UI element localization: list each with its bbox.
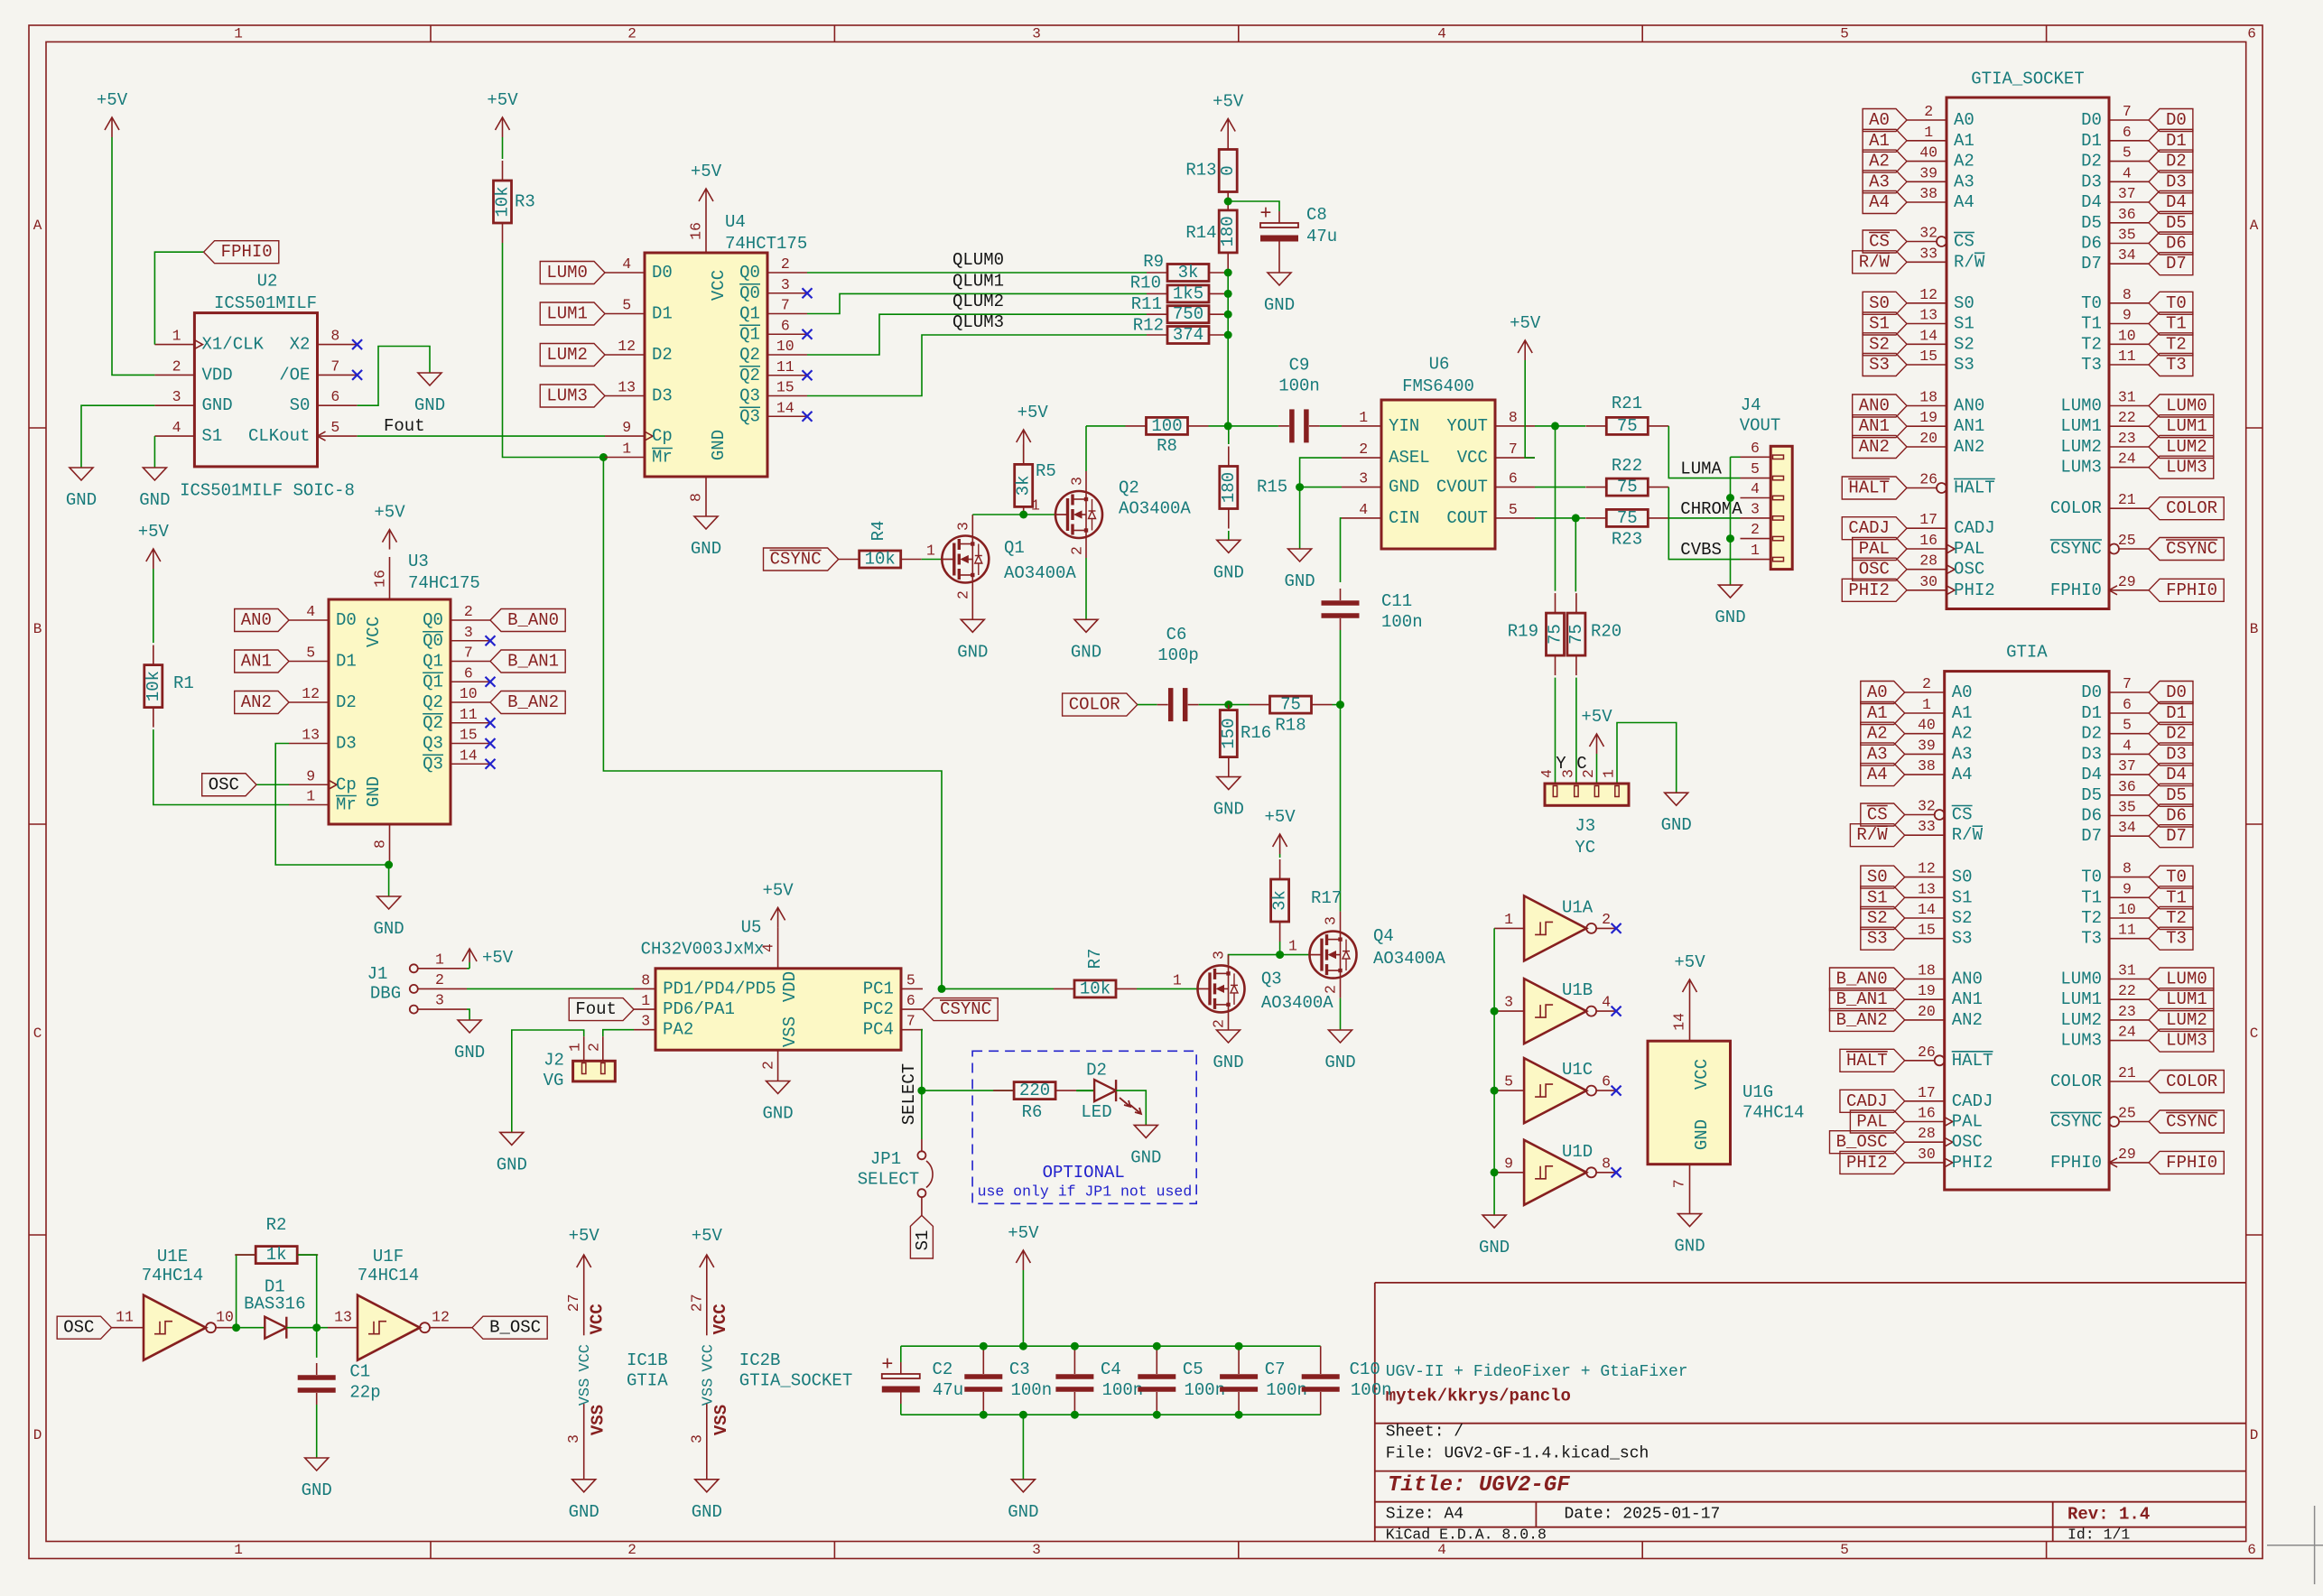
svg-text:750: 750 bbox=[1173, 304, 1203, 324]
svg-text:R19: R19 bbox=[1508, 621, 1538, 641]
junction bbox=[1224, 311, 1232, 319]
GTIA_SOCKET pin 12 S0 bbox=[1907, 302, 1947, 304]
svg-text:IC2B: IC2B bbox=[739, 1350, 781, 1370]
svg-text:3: 3 bbox=[955, 522, 972, 531]
svg-text:PD6/PA1: PD6/PA1 bbox=[663, 999, 735, 1019]
hierarchical label HALT (GTIA_SOCKET pin 26) bbox=[1842, 477, 1907, 499]
svg-text:GND: GND bbox=[1674, 1237, 1705, 1257]
svg-text:YIN: YIN bbox=[1389, 416, 1419, 436]
svg-text:GTIA: GTIA bbox=[627, 1370, 668, 1390]
hierarchical label COLOR (GTIA pin 21) bbox=[2149, 1071, 2224, 1093]
svg-text:A: A bbox=[33, 218, 42, 234]
svg-text:100p: 100p bbox=[1157, 645, 1199, 665]
U4 pin Mr bbox=[605, 457, 645, 459]
svg-text:5: 5 bbox=[1840, 1542, 1849, 1558]
capacitor C5 100n bbox=[1156, 1346, 1157, 1362]
GTIA_SOCKET pin 13 S1 bbox=[1907, 323, 1947, 325]
junction bbox=[1491, 1168, 1499, 1176]
GTIA pin 14 S2 bbox=[1905, 917, 1945, 919]
svg-text:OSC: OSC bbox=[209, 775, 239, 794]
svg-text:J3: J3 bbox=[1575, 816, 1595, 836]
svg-text:VCC: VCC bbox=[711, 1304, 730, 1334]
svg-text:D1: D1 bbox=[2166, 703, 2187, 723]
U6 pin VCC bbox=[1495, 457, 1535, 459]
svg-text:30: 30 bbox=[1919, 573, 1937, 590]
svg-text:T1: T1 bbox=[2081, 887, 2102, 907]
wire bbox=[1228, 531, 1230, 540]
svg-text:74HCT175: 74HCT175 bbox=[725, 234, 807, 254]
U6 pin ASEL bbox=[1342, 457, 1381, 459]
svg-text:VSS: VSS bbox=[780, 1016, 800, 1047]
svg-text:VSS: VSS bbox=[700, 1378, 717, 1406]
hierarchical label D7 (GTIA_SOCKET pin 34) bbox=[2149, 253, 2193, 275]
svg-text:47u: 47u bbox=[1306, 227, 1337, 246]
svg-text:T1: T1 bbox=[2166, 887, 2187, 907]
svg-text:/OE: /OE bbox=[279, 365, 310, 385]
svg-text:T3: T3 bbox=[2166, 355, 2187, 375]
GTIA pin 25 CSYNC bbox=[2109, 1117, 2119, 1127]
wire bbox=[286, 1327, 328, 1329]
svg-text:S0: S0 bbox=[1867, 868, 1888, 887]
svg-text:LUM3: LUM3 bbox=[546, 386, 588, 406]
svg-text:LUM1: LUM1 bbox=[2166, 416, 2207, 436]
GTIA_SOCKET pin 35 D6 bbox=[2109, 243, 2149, 245]
GTIA pin 34 D7 bbox=[2109, 835, 2149, 837]
wire bbox=[1525, 360, 1535, 458]
svg-text:AO3400A: AO3400A bbox=[1119, 499, 1191, 519]
svg-text:0: 0 bbox=[1218, 165, 1238, 175]
wire bbox=[467, 1009, 469, 1020]
hierarchical label LUM1 (GTIA_SOCKET pin 22) bbox=[2149, 415, 2214, 438]
svg-text:33: 33 bbox=[1919, 245, 1937, 262]
svg-text:J4: J4 bbox=[1741, 395, 1761, 415]
svg-text:16: 16 bbox=[372, 570, 389, 588]
GTIA_SOCKET pin 6 D1 bbox=[2109, 140, 2149, 142]
svg-text:2: 2 bbox=[172, 357, 181, 375]
hierarchical label A2 (GTIA_SOCKET pin 40) bbox=[1863, 150, 1907, 172]
svg-text:S1: S1 bbox=[1954, 314, 1975, 334]
junction bbox=[917, 1087, 925, 1095]
diode D2 LED bbox=[1076, 1090, 1094, 1091]
svg-text:4: 4 bbox=[1751, 480, 1760, 497]
svg-text:1: 1 bbox=[1922, 696, 1931, 713]
svg-text:YOUT: YOUT bbox=[1446, 416, 1488, 436]
svg-text:24: 24 bbox=[2118, 450, 2136, 468]
svg-text:SELECT: SELECT bbox=[858, 1170, 919, 1190]
svg-text:7: 7 bbox=[2123, 675, 2132, 692]
svg-text:10: 10 bbox=[2118, 327, 2136, 344]
svg-text:COLOR: COLOR bbox=[2166, 498, 2217, 518]
hierarchical label CS (GTIA_SOCKET pin 32) bbox=[1863, 230, 1907, 253]
svg-text:220: 220 bbox=[1019, 1081, 1050, 1100]
junction bbox=[1491, 1007, 1499, 1016]
svg-text:2: 2 bbox=[435, 971, 444, 988]
svg-text:6: 6 bbox=[2247, 1542, 2256, 1558]
svg-text:GND: GND bbox=[66, 490, 97, 510]
svg-text:AN2: AN2 bbox=[1954, 437, 1984, 457]
svg-text:75: 75 bbox=[1566, 624, 1586, 645]
svg-text:GND: GND bbox=[762, 1104, 793, 1124]
wire bbox=[1022, 1270, 1024, 1346]
ground (J4) bbox=[1719, 585, 1742, 598]
svg-text:8: 8 bbox=[330, 328, 339, 345]
svg-text:U1B: U1B bbox=[1562, 980, 1593, 1000]
svg-text:LUM2: LUM2 bbox=[2060, 1010, 2102, 1030]
svg-text:10: 10 bbox=[776, 338, 794, 355]
hierarchical label D6 (GTIA_SOCKET pin 35) bbox=[2149, 232, 2193, 255]
svg-text:use only if JP1 not used: use only if JP1 not used bbox=[978, 1183, 1193, 1200]
svg-text:B_AN2: B_AN2 bbox=[507, 692, 559, 712]
svg-text:28: 28 bbox=[1919, 552, 1937, 570]
U6 pin CIN bbox=[1342, 517, 1381, 519]
svg-text:Q1: Q1 bbox=[739, 324, 760, 344]
wire bbox=[503, 243, 606, 458]
hierarchical label B_AN2 (GTIA pin 20) bbox=[1830, 1008, 1905, 1031]
U5 pin PC4 bbox=[901, 1029, 923, 1031]
GTIA_SOCKET pin 30 PHI2 bbox=[1907, 589, 1947, 591]
svg-text:CSYNC: CSYNC bbox=[940, 999, 991, 1019]
junction bbox=[1071, 1342, 1079, 1350]
no-connect U4 Q0bar bbox=[803, 288, 813, 298]
svg-text:R11: R11 bbox=[1131, 294, 1162, 314]
svg-text:PAL: PAL bbox=[1859, 539, 1890, 559]
svg-text:+5V: +5V bbox=[374, 503, 405, 523]
svg-text:S1: S1 bbox=[1869, 314, 1890, 334]
svg-text:75: 75 bbox=[1617, 416, 1638, 436]
svg-text:7: 7 bbox=[1671, 1179, 1688, 1188]
hierarchical label R/W (GTIA pin 33) bbox=[1850, 824, 1904, 847]
GTIA pin 9 T1 bbox=[2109, 896, 2149, 898]
junction bbox=[980, 1342, 988, 1350]
U4 pin Q0bar bbox=[767, 292, 807, 294]
svg-text:D5: D5 bbox=[2081, 213, 2102, 233]
svg-text:5: 5 bbox=[1509, 501, 1518, 518]
svg-text:U1E: U1E bbox=[157, 1247, 188, 1267]
svg-text:OSC: OSC bbox=[1859, 560, 1890, 580]
svg-text:QLUM0: QLUM0 bbox=[952, 250, 1004, 270]
svg-text:AN0: AN0 bbox=[1952, 970, 1983, 989]
hierarchical label D6 (GTIA pin 35) bbox=[2149, 804, 2193, 827]
hierarchical label CSYNC (to R4) bbox=[764, 548, 839, 571]
svg-text:GND: GND bbox=[691, 539, 721, 559]
svg-text:D6: D6 bbox=[2081, 234, 2102, 254]
resistor R16 150 bbox=[1228, 705, 1230, 710]
svg-text:Sheet: /: Sheet: / bbox=[1386, 1424, 1463, 1442]
wire bbox=[1023, 450, 1025, 461]
svg-text:S3: S3 bbox=[1952, 929, 1973, 949]
svg-text:PAL: PAL bbox=[1952, 1112, 1983, 1132]
svg-text:CADJ: CADJ bbox=[1846, 1091, 1888, 1111]
svg-text:11: 11 bbox=[2118, 922, 2136, 939]
svg-text:FPHI0: FPHI0 bbox=[221, 242, 273, 262]
svg-text:6: 6 bbox=[464, 664, 473, 682]
svg-text:39: 39 bbox=[1919, 164, 1937, 181]
wire bbox=[1116, 1090, 1146, 1125]
svg-text:CADJ: CADJ bbox=[1954, 518, 1995, 538]
svg-text:B_AN0: B_AN0 bbox=[1836, 970, 1888, 989]
GTIA pin 5 D2 bbox=[2109, 733, 2149, 735]
svg-text:11: 11 bbox=[776, 358, 794, 376]
svg-text:2: 2 bbox=[781, 255, 790, 273]
wire bbox=[112, 137, 154, 375]
svg-text:LUM2: LUM2 bbox=[2166, 1010, 2207, 1030]
svg-text:A4: A4 bbox=[1869, 192, 1890, 212]
svg-text:VG: VG bbox=[544, 1071, 564, 1090]
svg-text:14: 14 bbox=[460, 747, 478, 764]
hierarchical label D3 (GTIA pin 4) bbox=[2149, 743, 2193, 766]
svg-text:QLUM1: QLUM1 bbox=[952, 271, 1004, 291]
ground (R16) bbox=[1217, 777, 1240, 790]
GTIA pin 40 A2 bbox=[1905, 733, 1945, 735]
svg-text:75: 75 bbox=[1617, 478, 1638, 497]
svg-text:GND: GND bbox=[1692, 1119, 1712, 1150]
svg-text:18: 18 bbox=[1918, 962, 1936, 979]
svg-text:11: 11 bbox=[116, 1309, 134, 1326]
wire bbox=[901, 1345, 1321, 1347]
svg-text:mytek/kkrys/panclo: mytek/kkrys/panclo bbox=[1386, 1387, 1571, 1406]
svg-text:22: 22 bbox=[2118, 409, 2136, 426]
svg-text:4: 4 bbox=[172, 419, 181, 436]
J1 pin 2 bbox=[410, 985, 418, 993]
wire bbox=[922, 559, 943, 561]
svg-text:U1D: U1D bbox=[1562, 1142, 1593, 1162]
svg-text:9: 9 bbox=[2123, 880, 2132, 897]
svg-text:HALT: HALT bbox=[1952, 1051, 1993, 1071]
junction bbox=[385, 861, 393, 869]
GTIA pin 17 CADJ bbox=[1905, 1100, 1945, 1102]
svg-text:6: 6 bbox=[1602, 1073, 1611, 1090]
svg-text:23: 23 bbox=[2118, 1003, 2136, 1020]
svg-text:R23: R23 bbox=[1612, 530, 1642, 550]
svg-text:Cp: Cp bbox=[336, 775, 357, 794]
svg-text:5: 5 bbox=[622, 297, 631, 314]
svg-text:3: 3 bbox=[1504, 994, 1513, 1011]
svg-text:B_OSC: B_OSC bbox=[1836, 1132, 1888, 1152]
GTIA_SOCKET pin 7 D0 bbox=[2109, 119, 2149, 121]
GTIA pin 11 T3 bbox=[2109, 938, 2149, 940]
GTIA_SOCKET pin 2 A0 bbox=[1907, 119, 1947, 121]
GTIA_SOCKET pin 28 OSC bbox=[1907, 569, 1947, 571]
hierarchical label T0 (GTIA pin 8) bbox=[2149, 866, 2193, 888]
wire bbox=[1209, 425, 1278, 427]
svg-text:GTIA_SOCKET: GTIA_SOCKET bbox=[1971, 70, 2084, 89]
svg-text:D3: D3 bbox=[2081, 744, 2102, 764]
junction bbox=[1572, 514, 1580, 522]
svg-text:U1F: U1F bbox=[373, 1247, 404, 1267]
junction bbox=[1019, 1342, 1027, 1350]
svg-text:75: 75 bbox=[1546, 624, 1566, 645]
wire bbox=[316, 1405, 318, 1458]
svg-text:D3: D3 bbox=[336, 734, 357, 754]
transistor Q2 AO3400A bbox=[1055, 491, 1102, 538]
U2 pin 5 CLKout bbox=[318, 435, 358, 437]
svg-text:AO3400A: AO3400A bbox=[1261, 993, 1333, 1013]
U3 pin Mr bbox=[289, 804, 329, 806]
svg-text:GND: GND bbox=[1324, 1053, 1355, 1072]
svg-text:+5V: +5V bbox=[482, 948, 514, 968]
U2 pin 6 S0 bbox=[318, 404, 358, 406]
hierarchical label A0 (GTIA_SOCKET pin 2) bbox=[1863, 109, 1907, 132]
svg-text:4: 4 bbox=[2123, 164, 2132, 181]
U4 pin Cp bbox=[605, 435, 645, 437]
svg-text:S1: S1 bbox=[1867, 887, 1888, 907]
GTIA pin 1 A1 bbox=[1905, 712, 1945, 714]
wire bbox=[1024, 514, 1055, 515]
svg-text:AN1: AN1 bbox=[241, 652, 272, 672]
junction bbox=[1224, 422, 1232, 430]
wire bbox=[1138, 704, 1157, 706]
resistor R22 75 bbox=[1585, 487, 1606, 488]
svg-text:T1: T1 bbox=[2081, 314, 2102, 334]
U6 pin YIN bbox=[1342, 425, 1381, 427]
svg-text:D1: D1 bbox=[652, 304, 673, 324]
hierarchical label AN1 (GTIA_SOCKET pin 19) bbox=[1853, 415, 1907, 438]
U3 GND pin 8 bbox=[389, 824, 391, 865]
hierarchical label CSYNC (U5 PC2) bbox=[923, 998, 998, 1021]
svg-text:12: 12 bbox=[302, 685, 320, 702]
IC U5 CH32V003JxMx bbox=[655, 969, 901, 1050]
svg-text:R17: R17 bbox=[1311, 888, 1342, 908]
GTIA pin 22 LUM1 bbox=[2109, 998, 2149, 1000]
svg-text:T3: T3 bbox=[2081, 929, 2102, 949]
svg-text:D0: D0 bbox=[2166, 110, 2187, 130]
wire bbox=[298, 1255, 317, 1328]
svg-text:CADJ: CADJ bbox=[1952, 1091, 1993, 1111]
U6 pin GND bbox=[1342, 487, 1381, 488]
svg-text:AO3400A: AO3400A bbox=[1373, 949, 1445, 969]
svg-text:A: A bbox=[2250, 218, 2259, 234]
svg-text:+5V: +5V bbox=[762, 880, 794, 900]
resistor R4 10k bbox=[839, 559, 860, 561]
svg-text:R21: R21 bbox=[1612, 394, 1642, 413]
svg-text:D4: D4 bbox=[2081, 765, 2102, 784]
svg-text:D7: D7 bbox=[2081, 826, 2102, 846]
U5 pin PD1/PD4/PD5 bbox=[634, 988, 655, 989]
GTIA pin 32 CS bbox=[1935, 810, 1945, 820]
svg-text:S0: S0 bbox=[1869, 293, 1890, 313]
svg-text:29: 29 bbox=[2118, 1146, 2136, 1163]
svg-text:D2: D2 bbox=[2166, 724, 2187, 744]
svg-text:1: 1 bbox=[234, 1542, 243, 1558]
svg-text:Size: A4: Size: A4 bbox=[1386, 1506, 1463, 1524]
svg-text:28: 28 bbox=[1918, 1125, 1936, 1142]
svg-text:1: 1 bbox=[641, 992, 650, 1009]
svg-text:Title: UGV2-GF: Title: UGV2-GF bbox=[1388, 1473, 1570, 1498]
wire bbox=[153, 729, 289, 804]
wire bbox=[1320, 425, 1342, 427]
Q2 drain wire up to R8 bbox=[1085, 471, 1087, 491]
capacitor C4 100n bbox=[1073, 1346, 1075, 1362]
hierarchical label FPHI0 (GTIA pin 29) bbox=[2149, 1151, 2224, 1174]
svg-text:U2: U2 bbox=[257, 272, 278, 292]
GTIA_SOCKET pin 8 T0 bbox=[2109, 302, 2149, 304]
hierarchical label LUM0 bbox=[540, 262, 605, 284]
svg-text:PHI2: PHI2 bbox=[1952, 1153, 1993, 1173]
ground (C8) bbox=[1278, 253, 1280, 273]
wire bbox=[1340, 998, 1342, 1030]
GTIA pin 10 T2 bbox=[2109, 917, 2149, 919]
svg-text:21: 21 bbox=[2118, 491, 2136, 508]
hierarchical label D3 (GTIA_SOCKET pin 4) bbox=[2149, 171, 2193, 193]
svg-text:13: 13 bbox=[302, 727, 320, 744]
U1G VCC pin 14 bbox=[1689, 999, 1691, 1041]
GTIA pin 18 AN0 bbox=[1905, 979, 1945, 980]
IC U2 ICS501MILF bbox=[194, 313, 317, 467]
hierarchical label COLOR (GTIA_SOCKET pin 21) bbox=[2149, 497, 2224, 520]
IC U4 74HCT175 bbox=[645, 253, 767, 477]
svg-text:D2: D2 bbox=[1086, 1061, 1107, 1081]
svg-text:+5V: +5V bbox=[1017, 403, 1049, 422]
svg-text:D5: D5 bbox=[2081, 785, 2102, 805]
svg-text:150: 150 bbox=[1219, 718, 1239, 748]
GTIA_SOCKET pin 29 FPHI0 bbox=[2109, 589, 2149, 591]
svg-text:11: 11 bbox=[2118, 348, 2136, 365]
svg-text:3: 3 bbox=[172, 388, 181, 405]
svg-text:Mr: Mr bbox=[652, 448, 673, 468]
U3 pin Q2bar bbox=[451, 722, 490, 724]
svg-text:D3: D3 bbox=[652, 386, 673, 406]
svg-text:COUT: COUT bbox=[1446, 508, 1488, 528]
svg-text:LUM1: LUM1 bbox=[2060, 416, 2102, 436]
U4 pin Q2bar bbox=[767, 375, 807, 376]
svg-text:CS: CS bbox=[1952, 805, 1973, 825]
hierarchical label LUM2 (GTIA pin 23) bbox=[2149, 1008, 2214, 1031]
svg-text:1: 1 bbox=[1751, 542, 1760, 559]
svg-text:2: 2 bbox=[627, 26, 637, 42]
svg-text:2: 2 bbox=[760, 1061, 777, 1070]
svg-text:6: 6 bbox=[2123, 696, 2132, 713]
svg-text:13: 13 bbox=[1919, 307, 1937, 324]
svg-text:2: 2 bbox=[1924, 103, 1933, 120]
junction bbox=[1224, 701, 1232, 709]
U2 pin 7 /OE bbox=[318, 374, 358, 376]
svg-text:3: 3 bbox=[1032, 1542, 1041, 1558]
hierarchical label LUM3 bbox=[540, 385, 605, 407]
svg-text:3k: 3k bbox=[1178, 263, 1199, 283]
svg-text:4: 4 bbox=[1437, 26, 1446, 42]
svg-text:1: 1 bbox=[1288, 938, 1297, 955]
svg-text:ICS501MILF: ICS501MILF bbox=[214, 293, 317, 313]
svg-text:UGV-II + FideoFixer + GtiaFixe: UGV-II + FideoFixer + GtiaFixer bbox=[1386, 1363, 1688, 1381]
svg-text:+5V: +5V bbox=[692, 1226, 723, 1246]
wire bbox=[1535, 487, 1585, 488]
U5 pin PC1 bbox=[901, 988, 923, 989]
wire bbox=[1617, 723, 1677, 793]
U3 pin Q1bar bbox=[451, 681, 490, 682]
GTIA pin 26 HALT bbox=[1935, 1055, 1945, 1065]
J4 pin 2 bbox=[1741, 538, 1771, 540]
wire bbox=[1280, 942, 1310, 955]
svg-text:X2: X2 bbox=[290, 335, 311, 355]
resistor R20 75 bbox=[1575, 593, 1577, 613]
svg-text:3k: 3k bbox=[1270, 890, 1290, 911]
hierarchical label AN0 (GTIA_SOCKET pin 18) bbox=[1853, 394, 1907, 417]
wire bbox=[153, 569, 154, 643]
resistor R19 75 bbox=[1555, 593, 1556, 613]
J2 pin 2 bbox=[602, 1036, 604, 1061]
GTIA pin 12 S0 bbox=[1905, 877, 1945, 878]
svg-text:U6: U6 bbox=[1429, 355, 1450, 375]
svg-text:LUM1: LUM1 bbox=[546, 304, 588, 324]
svg-text:A3: A3 bbox=[1869, 172, 1890, 191]
inverter U1E 74HC14 bbox=[144, 1295, 206, 1360]
GTIA_SOCKET pin 5 D2 bbox=[2109, 161, 2149, 162]
svg-text:VCC: VCC bbox=[364, 617, 384, 647]
svg-text:CSYNC: CSYNC bbox=[770, 550, 822, 570]
svg-text:Q2: Q2 bbox=[739, 345, 760, 365]
GTIA pin 19 AN1 bbox=[1905, 998, 1945, 1000]
svg-text:IC1B: IC1B bbox=[627, 1350, 668, 1370]
